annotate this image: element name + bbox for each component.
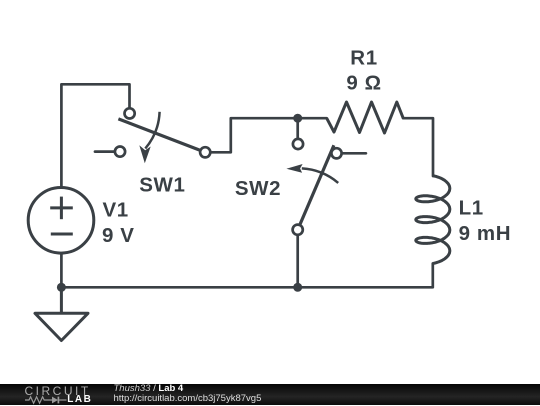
SW1 contact circle top (to V1) [125,108,135,118]
SW2 contact circle top (node A) [293,139,303,149]
wire V1 top to SW1 [61,84,129,188]
SW1 contact circle left (open throw) [115,147,125,157]
footer url [114,394,262,404]
svg-text:9 V: 9 V [102,224,135,247]
ground [35,287,88,340]
wire L1 bottom [431,264,434,288]
svg-text:9 Ω: 9 Ω [346,71,381,94]
footer title [114,385,184,395]
wire SW1 left stub [95,150,115,153]
svg-text:L1: L1 [459,196,484,219]
switch SW2 blade [298,145,334,230]
wire V1 bottom [60,253,63,287]
circuitlab logo LAB [67,395,92,405]
footer bar [0,384,540,405]
voltage source V1 [28,188,94,254]
SW1 pivot circle right (to R1 node) [200,147,210,157]
node junction dot ground [57,283,66,292]
circuitlab logo CIRCUIT [25,386,91,398]
wire R1 to L1 [403,118,433,176]
svg-text:R1: R1 [350,46,377,69]
node junction dot top [293,114,302,123]
node junction dot bottom [293,283,302,292]
wire SW2 bottom [296,235,299,288]
wire SW2 top [296,118,299,139]
svg-text:SW2: SW2 [235,177,281,200]
inductor L1 [416,176,450,264]
svg-text:9 mH: 9 mH [459,222,512,245]
wire bottom rail [61,286,432,289]
resistor R1 [327,102,404,133]
svg-text:V1: V1 [103,199,129,222]
SW2 pivot circle bottom (to ground rail) [293,225,303,235]
circuitlab logo squiggle [25,396,67,406]
svg-text:SW1: SW1 [139,174,185,197]
switch SW1 arrow [145,112,159,149]
switch SW2 arrow [302,168,338,183]
wire SW1 to R1 [205,118,327,152]
wire SW2 right stub [342,152,366,155]
SW2 contact circle right (open throw) [331,148,341,158]
switch SW1 blade [118,119,205,152]
